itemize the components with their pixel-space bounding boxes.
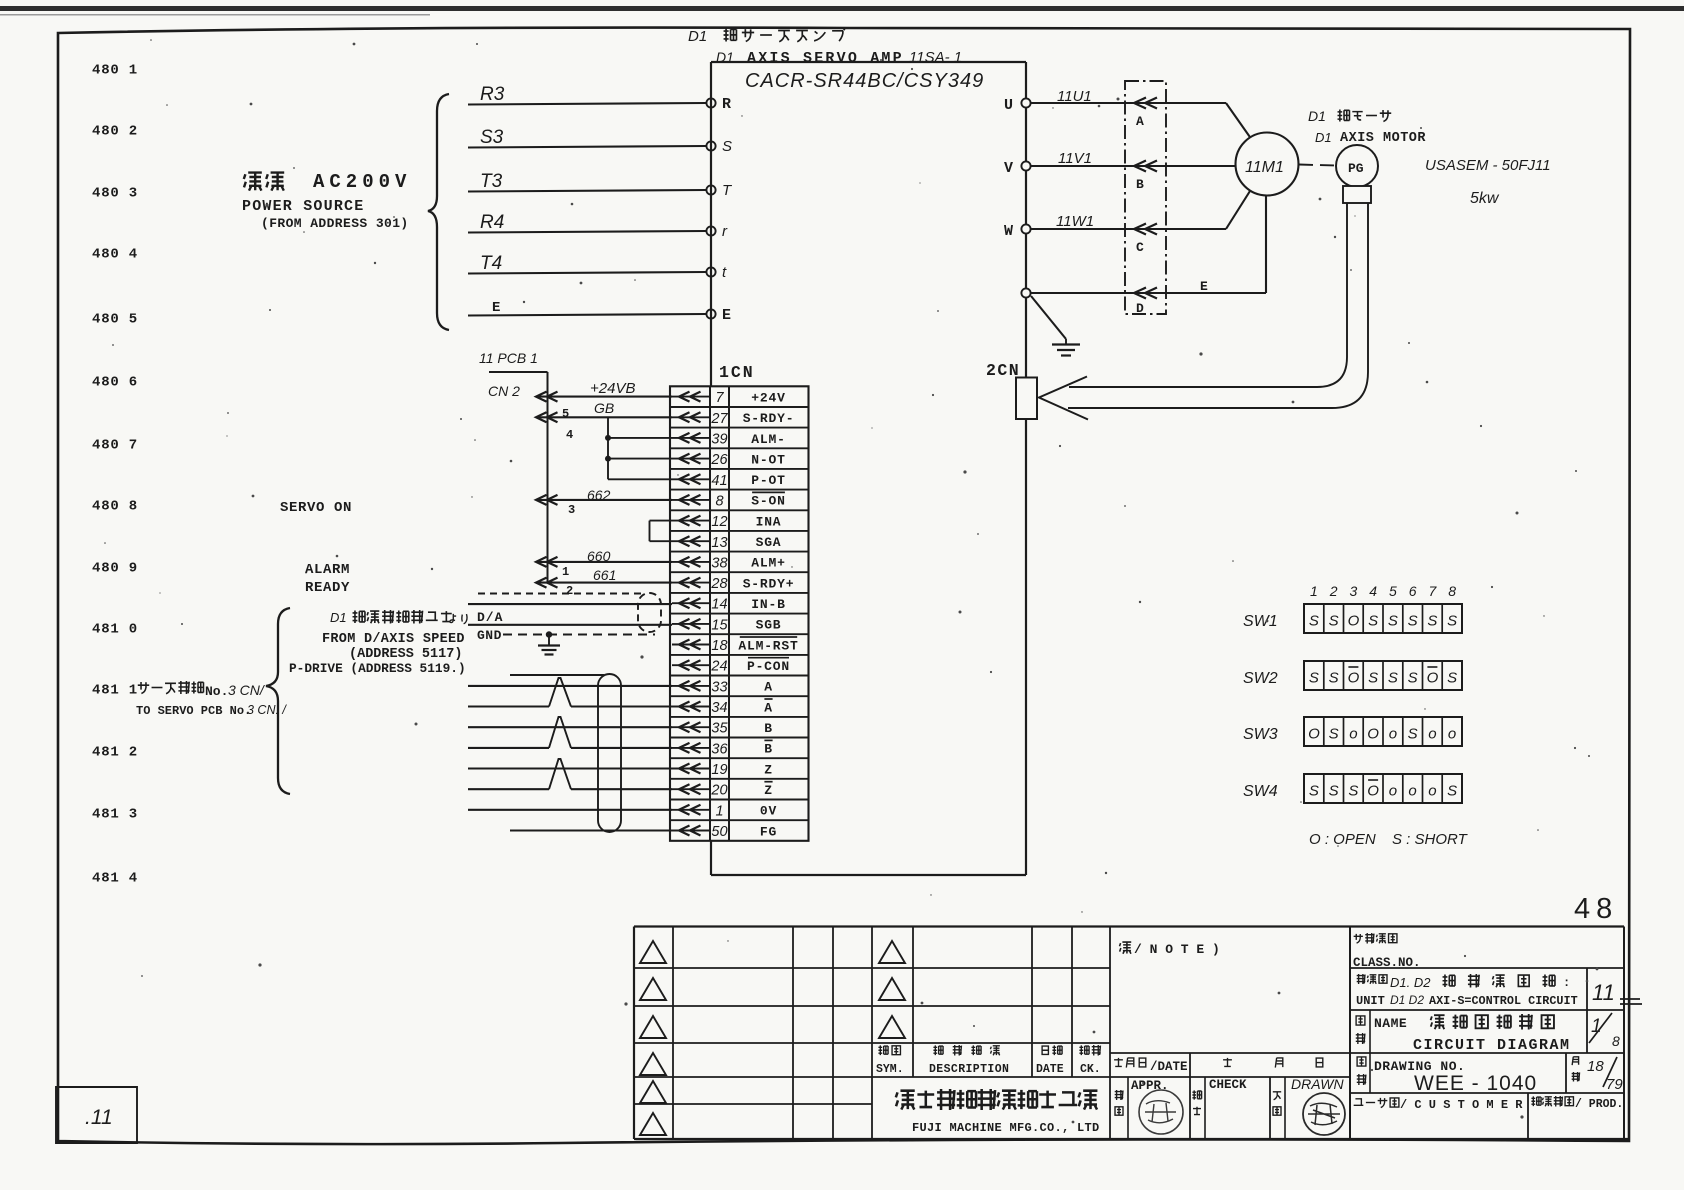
svg-text:U: U xyxy=(1004,97,1013,114)
svg-text:480 4: 480 4 xyxy=(92,247,138,263)
svg-text:V: V xyxy=(1004,160,1013,177)
svg-text:/ C U S T O M E R: / C U S T O M E R xyxy=(1400,1098,1523,1112)
svg-text:1: 1 xyxy=(715,803,723,819)
switch SW4 xyxy=(1243,774,1462,803)
wire R4 xyxy=(468,212,706,233)
switch SW2 xyxy=(1243,661,1462,690)
connector 2CN xyxy=(986,361,1037,419)
svg-text:SW3: SW3 xyxy=(1243,726,1278,743)
svg-text:480 1: 480 1 xyxy=(92,63,138,79)
svg-text:S: S xyxy=(1329,613,1339,630)
svg-text:5: 5 xyxy=(562,407,569,421)
node line-number labels 4801-4814 xyxy=(92,63,138,887)
svg-text:48: 48 xyxy=(1574,893,1618,925)
terminal S of servo amp xyxy=(706,138,732,155)
pin 12 INA with arrow xyxy=(672,514,781,530)
revision triangle L1 xyxy=(640,941,666,963)
svg-text:/ PROD.: / PROD. xyxy=(1575,1098,1623,1111)
svg-text:USASEM - 50FJ11: USASEM - 50FJ11 xyxy=(1425,157,1551,174)
svg-text:T4: T4 xyxy=(480,253,502,274)
jumper INA-SGA pins 12-13 xyxy=(650,521,673,542)
svg-text:S: S xyxy=(1447,613,1457,630)
label APPR with stamp xyxy=(1115,1079,1183,1134)
switch SW1 xyxy=(1243,604,1462,633)
svg-text:14: 14 xyxy=(711,597,727,613)
label servo pcb No.3 CN (Japanese) xyxy=(138,681,266,699)
label PROD xyxy=(1531,1096,1623,1111)
wire Z pin19 xyxy=(468,767,672,769)
svg-text:A: A xyxy=(764,700,773,715)
svg-text:CK.: CK. xyxy=(1080,1063,1101,1076)
wire GND (dashed) with ground xyxy=(477,628,655,643)
cable shield capsule xyxy=(598,674,621,832)
terminal E of servo amp xyxy=(706,307,731,324)
revision header DATE xyxy=(1036,1045,1064,1076)
svg-text:APPR.: APPR. xyxy=(1131,1079,1169,1093)
svg-text:R4: R4 xyxy=(480,212,504,233)
svg-text:D1. D2: D1. D2 xyxy=(1390,975,1431,990)
revision header DESCRIPTION xyxy=(929,1045,1009,1076)
pin 38 ALM+ with arrow xyxy=(672,555,786,571)
svg-text:S: S xyxy=(1309,783,1319,800)
label UNIT axis control circuit xyxy=(1356,974,1578,1008)
svg-text:D/A: D/A xyxy=(477,610,503,625)
svg-text:7: 7 xyxy=(715,390,724,406)
pin 27 S-RDY- with arrow xyxy=(672,411,794,427)
svg-text:1: 1 xyxy=(562,565,569,579)
svg-text:UNIT: UNIT xyxy=(1356,994,1385,1008)
svg-text:O: O xyxy=(1367,726,1379,743)
wire shield drain (dashed) xyxy=(478,593,642,595)
svg-text:6: 6 xyxy=(1409,583,1417,599)
op-amp box: D1 AXIS SERVO AMP CACR-SR44BC (U=11SA-1) xyxy=(711,62,1026,875)
svg-text:CIRCUIT DIAGRAM: CIRCUIT DIAGRAM xyxy=(1413,1037,1571,1054)
page index 18/79 xyxy=(1572,1057,1624,1093)
svg-text:POWER SOURCE: POWER SOURCE xyxy=(242,198,364,215)
svg-text:50: 50 xyxy=(711,824,727,840)
wire FG pin50 xyxy=(510,829,672,831)
svg-text:SGA: SGA xyxy=(756,535,782,550)
svg-text:S: S xyxy=(1388,613,1398,630)
label D1 axis motor (Japanese) xyxy=(1308,108,1391,124)
svg-text:4: 4 xyxy=(1369,583,1377,599)
svg-text:2: 2 xyxy=(1329,583,1338,599)
pin 13 SGA with arrow xyxy=(672,535,781,551)
wire 11W1 W-phase xyxy=(1031,191,1250,235)
pin 26 N-OT with arrow xyxy=(672,452,786,468)
pin 19 Z with arrow xyxy=(672,762,773,778)
svg-text:36: 36 xyxy=(711,741,728,757)
svg-text:S: S xyxy=(1368,613,1378,630)
svg-text:GND: GND xyxy=(477,628,502,643)
svg-text:O: O xyxy=(1427,670,1439,687)
pin 36 B with arrow xyxy=(672,740,773,757)
wire 0V pin1 xyxy=(468,809,672,811)
svg-text:SYM.: SYM. xyxy=(876,1063,904,1076)
svg-text:P-CON: P-CON xyxy=(747,659,790,674)
svg-text:18: 18 xyxy=(711,638,727,654)
pin 39 ALM- with arrow xyxy=(672,431,786,447)
svg-text:3 CN: /: 3 CN: / xyxy=(247,703,287,717)
label TO SERVO PCB No.3 CN xyxy=(136,703,287,718)
revision header SYM xyxy=(876,1045,904,1076)
svg-text:o: o xyxy=(1428,783,1436,800)
svg-text:15: 15 xyxy=(711,617,728,633)
svg-text:481 1: 481 1 xyxy=(92,683,138,699)
cable PG outer to 2CN xyxy=(1068,203,1368,408)
wire /B pin36 with twist xyxy=(468,717,672,748)
svg-text:AC200V: AC200V xyxy=(313,171,411,193)
label D1 AXIS SERVO AMP 11SA-1 xyxy=(716,49,962,67)
pin 14 IN-B with arrow xyxy=(672,597,786,613)
svg-text:B: B xyxy=(764,721,773,736)
svg-text:S-RDY+: S-RDY+ xyxy=(743,576,795,591)
svg-text:SERVO ON: SERVO ON xyxy=(280,500,352,516)
wire 661 ready pin28 to CN2 pin2 xyxy=(536,567,672,598)
svg-text:/DATE: /DATE xyxy=(1150,1060,1188,1074)
svg-text:D1: D1 xyxy=(1315,130,1332,145)
svg-text:CN 2: CN 2 xyxy=(488,383,520,399)
svg-text:TO SERVO PCB No.: TO SERVO PCB No. xyxy=(136,704,251,718)
pin 15 SGB with arrow xyxy=(672,617,781,633)
svg-text:P-OT: P-OT xyxy=(751,473,785,488)
svg-text:o: o xyxy=(1408,783,1416,800)
svg-text:ALM+: ALM+ xyxy=(751,556,785,571)
svg-text:o: o xyxy=(1389,783,1397,800)
svg-text:E: E xyxy=(722,307,731,324)
svg-text:O : OPEN: O : OPEN xyxy=(1309,831,1376,848)
wire A pin33 xyxy=(468,685,672,687)
svg-text:1: 1 xyxy=(1310,583,1318,599)
svg-text:FG: FG xyxy=(760,824,777,839)
svg-text:READY: READY xyxy=(305,580,350,596)
scan edge bar xyxy=(0,6,1684,11)
label D1 AXIS MOTOR xyxy=(1315,130,1426,146)
svg-text:79: 79 xyxy=(1606,1076,1623,1093)
svg-text:+24V: +24V xyxy=(751,390,785,405)
svg-text:R: R xyxy=(722,96,731,113)
svg-text:(FROM ADDRESS 301): (FROM ADDRESS 301) xyxy=(261,216,409,231)
pin 20 Z with arrow xyxy=(672,782,773,799)
wire T3 xyxy=(468,171,706,192)
svg-text:B: B xyxy=(1136,177,1144,192)
sheet fraction 1/8 xyxy=(1589,1013,1620,1049)
label D1 axis speed command (Japanese) xyxy=(330,610,467,625)
wire +24VB pin7 to CN2 pin5 xyxy=(536,380,672,421)
terminal V output xyxy=(1004,160,1031,177)
svg-text:S: S xyxy=(1447,670,1457,687)
label DRAWING NO xyxy=(1357,1057,1537,1095)
svg-text:8: 8 xyxy=(1612,1033,1620,1049)
brace to-servo-pcb group xyxy=(266,608,290,794)
svg-text:S: S xyxy=(1368,670,1378,687)
encoder PG xyxy=(1336,145,1378,203)
svg-text:11: 11 xyxy=(1592,980,1615,1005)
svg-text:S: S xyxy=(1408,670,1418,687)
svg-text:41: 41 xyxy=(711,473,727,489)
svg-text:PG: PG xyxy=(1348,161,1364,176)
svg-text:34: 34 xyxy=(711,700,727,716)
connector CN2 of 11PCB1 xyxy=(479,350,548,584)
connector 1CN pin table xyxy=(670,386,809,841)
svg-text:S-ON: S-ON xyxy=(751,494,785,509)
label NAME circuit diagram xyxy=(1356,1014,1571,1054)
revision triangle L3 xyxy=(640,1016,666,1038)
wire S3 xyxy=(468,127,706,148)
svg-text:480 6: 480 6 xyxy=(92,375,138,391)
svg-text:24: 24 xyxy=(710,659,727,675)
svg-text:Z: Z xyxy=(764,783,773,798)
wire /Z pin20 with twist xyxy=(468,759,672,789)
legend O:OPEN S:SHORT xyxy=(1309,831,1469,848)
svg-text:DESCRIPTION: DESCRIPTION xyxy=(929,1063,1009,1076)
revision triangle L4 xyxy=(640,1053,666,1075)
svg-text:CLASS.NO.: CLASS.NO. xyxy=(1353,956,1421,970)
pin 35 B with arrow xyxy=(672,721,773,737)
svg-text:SW2: SW2 xyxy=(1243,670,1278,687)
svg-text:INA: INA xyxy=(756,514,782,529)
svg-text:8: 8 xyxy=(715,493,723,509)
svg-text:480 5: 480 5 xyxy=(92,312,138,328)
terminal T of servo amp xyxy=(706,182,733,199)
svg-text:Z: Z xyxy=(764,762,773,777)
svg-text:38: 38 xyxy=(711,555,727,571)
brace power source group xyxy=(428,94,449,330)
svg-text:S: S xyxy=(722,138,732,155)
wire shield stub A-group xyxy=(510,674,604,676)
pin 1 0V with arrow xyxy=(672,803,777,819)
svg-text:39: 39 xyxy=(711,431,727,447)
svg-text:(ADDRESS 5117): (ADDRESS 5117) xyxy=(349,647,462,662)
wire 11V1 V-phase xyxy=(1031,150,1236,172)
svg-text:11V1: 11V1 xyxy=(1058,150,1092,167)
pin 50 FG with arrow xyxy=(672,824,777,840)
svg-text:D1: D1 xyxy=(330,610,347,625)
svg-text:481 2: 481 2 xyxy=(92,745,138,761)
ground symbol at amp output xyxy=(1031,296,1080,356)
svg-text:S: S xyxy=(1427,613,1437,630)
svg-text:B: B xyxy=(764,742,773,757)
svg-text:SGB: SGB xyxy=(756,618,782,633)
wire 11U1 U-phase xyxy=(1031,88,1252,140)
svg-text:O: O xyxy=(1308,726,1320,743)
svg-text:3: 3 xyxy=(568,503,575,517)
svg-text:IN-B: IN-B xyxy=(751,597,785,612)
svg-text:T: T xyxy=(722,182,733,199)
label power source 電源 AC200V xyxy=(242,171,411,231)
svg-text:S: S xyxy=(1309,613,1319,630)
company name Fuji Machine xyxy=(896,1089,1100,1135)
wire R3 xyxy=(468,84,706,105)
wire /A pin34 with twist xyxy=(468,678,672,707)
arrow into 2CN xyxy=(1039,377,1088,420)
svg-text:3 CN/: 3 CN/ xyxy=(228,682,266,698)
svg-text:AXI-S=CONTROL CIRCUIT: AXI-S=CONTROL CIRCUIT xyxy=(1429,994,1578,1008)
value label CACR-SR44BC/CSY349 xyxy=(745,70,984,92)
svg-text:0V: 0V xyxy=(760,804,777,819)
svg-text:r: r xyxy=(722,223,728,240)
svg-text:S-RDY-: S-RDY- xyxy=(743,411,795,426)
sheet number 11 xyxy=(1592,980,1642,1005)
svg-text:18: 18 xyxy=(1587,1058,1604,1075)
svg-text:S: S xyxy=(1408,726,1418,743)
revision triangle L6 xyxy=(640,1113,666,1135)
svg-text:WEE - 1040: WEE - 1040 xyxy=(1414,1072,1537,1095)
svg-text:C: C xyxy=(1136,240,1144,255)
svg-text:5kw: 5kw xyxy=(1470,190,1500,207)
wire 662 servo-on pin8 to CN2 pin3 xyxy=(536,487,672,517)
svg-text:N-OT: N-OT xyxy=(751,452,785,467)
svg-text:8: 8 xyxy=(1448,583,1456,599)
label NOTE xyxy=(1120,942,1220,957)
pin 28 S-RDY+ with arrow xyxy=(672,576,794,592)
revision triangle L5 xyxy=(640,1081,666,1103)
svg-text:DATE: DATE xyxy=(1036,1063,1064,1076)
svg-text:AXIS SERVO AMP: AXIS SERVO AMP xyxy=(747,50,904,67)
label CLASS.NO xyxy=(1353,933,1421,970)
revision triangle R3 xyxy=(879,1016,905,1038)
svg-text:CACR-SR44BC/CSY349: CACR-SR44BC/CSY349 xyxy=(745,70,984,92)
svg-text:S: S xyxy=(1329,726,1339,743)
svg-text:AXIS MOTOR: AXIS MOTOR xyxy=(1340,131,1426,146)
svg-text:5: 5 xyxy=(1389,583,1397,599)
label CHECK xyxy=(1192,1078,1247,1115)
svg-text:481 4: 481 4 xyxy=(92,871,138,887)
svg-text:No.: No. xyxy=(205,684,228,699)
terminal E-output output xyxy=(1021,288,1030,297)
svg-text:11W1: 11W1 xyxy=(1056,213,1094,230)
motor M1 (11M1) xyxy=(1236,133,1299,196)
svg-text:A: A xyxy=(764,680,773,695)
svg-text:3: 3 xyxy=(1350,583,1358,599)
wire B pin35 xyxy=(468,726,672,728)
cable PG inner to 2CN xyxy=(1069,203,1347,387)
svg-text:D1: D1 xyxy=(1308,108,1326,124)
svg-text:2: 2 xyxy=(566,584,573,598)
revision header CK xyxy=(1079,1045,1100,1076)
wire D/A to pin14 IN-B xyxy=(468,604,672,625)
pin 33 A with arrow xyxy=(672,679,773,695)
svg-text:480 7: 480 7 xyxy=(92,438,138,454)
svg-text:W: W xyxy=(1004,223,1013,240)
svg-text:NAME: NAME xyxy=(1374,1016,1407,1031)
revision triangle R1 xyxy=(879,941,905,963)
shield oval (dashed) xyxy=(638,593,661,632)
title block right section xyxy=(1110,927,1624,1140)
wire to pin15 SGB xyxy=(468,624,672,626)
svg-text:660: 660 xyxy=(587,548,611,564)
svg-text:o: o xyxy=(1428,726,1436,743)
wire E xyxy=(468,300,706,316)
svg-text:A: A xyxy=(1136,114,1144,129)
svg-text:S: S xyxy=(1388,670,1398,687)
svg-text:27: 27 xyxy=(710,411,728,427)
pin 34 A with arrow xyxy=(672,699,773,716)
svg-text:480 3: 480 3 xyxy=(92,186,138,202)
svg-text:S: S xyxy=(1348,783,1358,800)
svg-text:D1: D1 xyxy=(716,49,734,65)
svg-text:D1: D1 xyxy=(688,28,707,45)
svg-text:E: E xyxy=(1200,279,1208,294)
pin 24 P-CON with arrow xyxy=(672,658,790,675)
svg-text:481 3: 481 3 xyxy=(92,807,138,823)
svg-text:FROM D/AXIS SPEED: FROM D/AXIS SPEED xyxy=(322,632,465,647)
svg-text:S : SHORT: S : SHORT xyxy=(1392,831,1469,848)
connector terminal box A-D (dash-dot) xyxy=(1125,81,1166,316)
svg-text:480 8: 480 8 xyxy=(92,499,138,515)
svg-text:o: o xyxy=(1448,726,1456,743)
pin 8 S-ON with arrow xyxy=(672,492,786,509)
wire GB pin27 to CN2 pin4 xyxy=(536,400,672,442)
sheet id box .11 xyxy=(56,1087,137,1143)
svg-text:O: O xyxy=(1367,783,1379,800)
svg-text:T3: T3 xyxy=(480,171,503,192)
revision triangle R2 xyxy=(879,978,905,1000)
svg-text:O: O xyxy=(1348,613,1360,630)
svg-text:SW4: SW4 xyxy=(1243,783,1278,800)
svg-text:t: t xyxy=(722,264,727,281)
svg-text:11SA- 1: 11SA- 1 xyxy=(909,49,962,66)
svg-text:28: 28 xyxy=(710,576,727,592)
svg-text:33: 33 xyxy=(711,679,727,695)
svg-text:26: 26 xyxy=(710,452,728,468)
svg-text:480 9: 480 9 xyxy=(92,561,138,577)
svg-text:S: S xyxy=(1329,670,1339,687)
revision triangle L2 xyxy=(640,978,666,1000)
switch SW3 xyxy=(1243,717,1462,746)
dashed link motor-PG xyxy=(1299,165,1335,166)
svg-text:o: o xyxy=(1349,726,1357,743)
svg-text:4: 4 xyxy=(566,428,573,442)
svg-text:1CN: 1CN xyxy=(719,363,755,382)
svg-text:o: o xyxy=(1389,726,1397,743)
terminal W output xyxy=(1004,223,1031,240)
label DATE row xyxy=(1114,1058,1323,1074)
svg-text:ALM-: ALM- xyxy=(751,432,785,447)
svg-text:ALM-RST: ALM-RST xyxy=(738,638,798,653)
terminal R of servo amp xyxy=(706,96,731,113)
svg-text:S: S xyxy=(1329,783,1339,800)
label CUSTOMER xyxy=(1354,1098,1524,1112)
svg-text:481 0: 481 0 xyxy=(92,622,138,638)
terminal t of servo amp xyxy=(706,264,727,281)
svg-text:7: 7 xyxy=(1429,583,1438,599)
svg-text:35: 35 xyxy=(711,721,728,737)
terminal U output xyxy=(1004,97,1031,114)
svg-text::: : xyxy=(1563,976,1570,990)
svg-text:E: E xyxy=(492,300,500,316)
wire E motor ground xyxy=(1031,196,1266,299)
svg-text:D1 D2: D1 D2 xyxy=(1390,993,1424,1007)
svg-text:480 2: 480 2 xyxy=(92,124,138,140)
svg-text:DRAWN: DRAWN xyxy=(1291,1076,1345,1092)
svg-text:/ N O T E ): / N O T E ) xyxy=(1134,942,1220,957)
svg-text:O: O xyxy=(1348,670,1360,687)
svg-text:S: S xyxy=(1408,613,1418,630)
svg-text:P-DRIVE (ADDRESS 5119.): P-DRIVE (ADDRESS 5119.) xyxy=(289,661,466,676)
svg-text:CHECK: CHECK xyxy=(1209,1078,1247,1092)
terminal r of servo amp xyxy=(706,223,728,240)
wire 660 alarm pin38 to CN2 pin1 xyxy=(536,548,672,579)
wire T4 xyxy=(468,253,706,274)
dip switch column numbers 1-8 xyxy=(1310,583,1456,599)
svg-text:20: 20 xyxy=(710,783,727,799)
svg-text:D: D xyxy=(1136,301,1144,316)
pin 41 P-OT with arrow xyxy=(672,473,786,489)
label DRAWN with stamp xyxy=(1273,1076,1345,1135)
svg-text:ALARM: ALARM xyxy=(305,562,350,578)
svg-text:661: 661 xyxy=(593,567,616,583)
